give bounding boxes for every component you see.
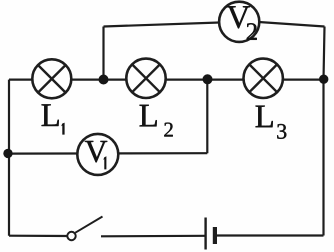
label L1 [42, 104, 65, 134]
wire switch to battery [101, 235, 205, 238]
wire top-left horizontal to V2 [104, 23, 220, 27]
label L2 [140, 105, 173, 137]
wire left vertical [8, 80, 10, 236]
junction node B [203, 74, 213, 84]
junction node A [99, 75, 109, 85]
wire top-right from V2 to right corner [259, 22, 325, 27]
wire main horizontal [9, 78, 324, 80]
lamp L3 [244, 59, 283, 98]
wire V1 branch horizontal [8, 152, 207, 155]
battery [206, 218, 215, 250]
wire bottom-left to switch [9, 235, 67, 238]
junction node left [3, 149, 12, 158]
wire right vertical [324, 27, 325, 236]
voltmeter V1 [77, 134, 118, 175]
lamp L2 [126, 59, 165, 98]
switch S (open) [67, 217, 102, 241]
wire vertical from node B down to V1 branch [206, 80, 208, 154]
junction node right [319, 75, 328, 84]
wire vertical from top wire down to node A [102, 27, 104, 80]
label L3 [256, 106, 287, 139]
voltmeter V2 [219, 2, 259, 42]
wire battery to bottom-right corner [217, 234, 324, 236]
lamp L1 [32, 59, 71, 98]
